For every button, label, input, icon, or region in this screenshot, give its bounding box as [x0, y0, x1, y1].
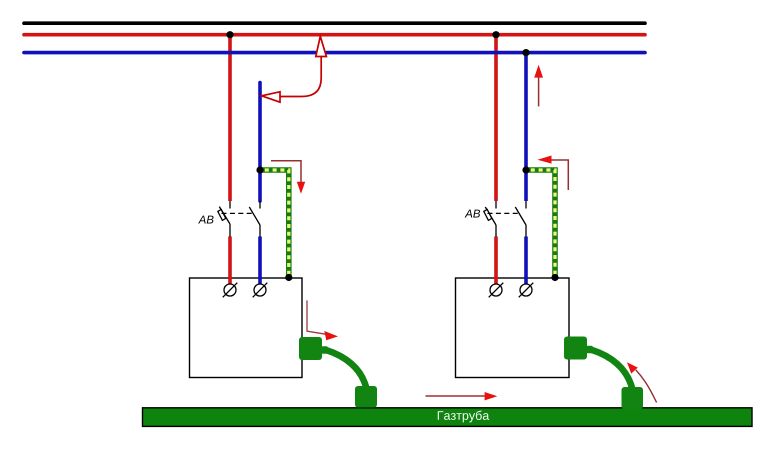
wire PE (green/yellow), right unit [526, 170, 555, 277]
terminal clamp L, right unit [489, 283, 504, 298]
wire N drop, right unit (blue vertical upper) [524, 53, 528, 201]
gas pipe [143, 408, 753, 427]
breaker AB left unit, mechanical link (dashed) [222, 212, 253, 214]
breaker AB left unit, pole 2 [249, 201, 260, 237]
junction dot: right L tap on red bus [492, 31, 499, 38]
junction dot: right PE tap on N drop [522, 166, 529, 173]
arrow: current along gas pipe [426, 392, 498, 400]
meter box, left unit [190, 278, 303, 378]
grounding conductor, right (thick green) [592, 350, 632, 388]
ground clamp on pipe, left [355, 386, 377, 408]
wire N bus (blue) [24, 51, 645, 55]
breaker AB right unit, mechanical link (dashed) [488, 212, 519, 214]
wire PE (green/yellow), left unit [260, 170, 289, 277]
breaker AB right unit, pole 1 [484, 201, 496, 237]
arrow: current into PE jumper (down), left unit [271, 161, 305, 194]
wire L drop, right unit (red vertical lower) [494, 237, 498, 286]
ground clamp on left box [299, 337, 328, 360]
terminal clamp N, left unit [253, 283, 268, 298]
junction dot: left L tap on red bus [226, 31, 233, 38]
wire PEN bus (black, top) [24, 21, 645, 25]
arrow: current into ground clamp, left box [307, 300, 338, 340]
wire L drop, left unit (red vertical upper) [228, 35, 232, 201]
wire L drop, right unit (red vertical upper) [494, 35, 498, 201]
arrow: current up the N drop, right unit [534, 65, 543, 107]
breaker AB left unit, pole 1 [218, 201, 230, 237]
ground clamp on pipe, right [622, 387, 644, 409]
wire L phase bus (red) [24, 33, 645, 37]
arrow: fault current up into red bus then to N drop (S-curve, open heads), left unit [262, 36, 327, 102]
ground clamp on right box [564, 337, 593, 360]
junction dot: left PE tap on N drop [256, 166, 263, 173]
terminal clamp N, right unit [519, 283, 534, 298]
wire L drop, left unit (red vertical lower) [228, 237, 232, 286]
junction dot: right PE at box [551, 274, 558, 281]
grounding conductor, left (thick green) [326, 350, 366, 387]
arrow: current out of PE jumper (left), right unit [538, 156, 569, 191]
terminal clamp L, left unit [223, 283, 238, 298]
label AB right unit [465, 210, 481, 218]
arrow: current up into right ground clamp [627, 362, 657, 402]
wire N drop, left unit (blue vertical lower) [258, 237, 262, 286]
label AB left unit [198, 216, 214, 224]
junction dot: right N tap on blue bus [522, 49, 529, 56]
wire N drop, right unit (blue vertical lower) [524, 237, 528, 286]
wire N drop, left unit (blue vertical upper, floating top) [258, 83, 262, 202]
meter box, right unit [456, 278, 570, 378]
breaker AB right unit, pole 2 [515, 201, 526, 237]
label gas pipe [438, 411, 489, 423]
junction dot: left PE at box [285, 274, 292, 281]
